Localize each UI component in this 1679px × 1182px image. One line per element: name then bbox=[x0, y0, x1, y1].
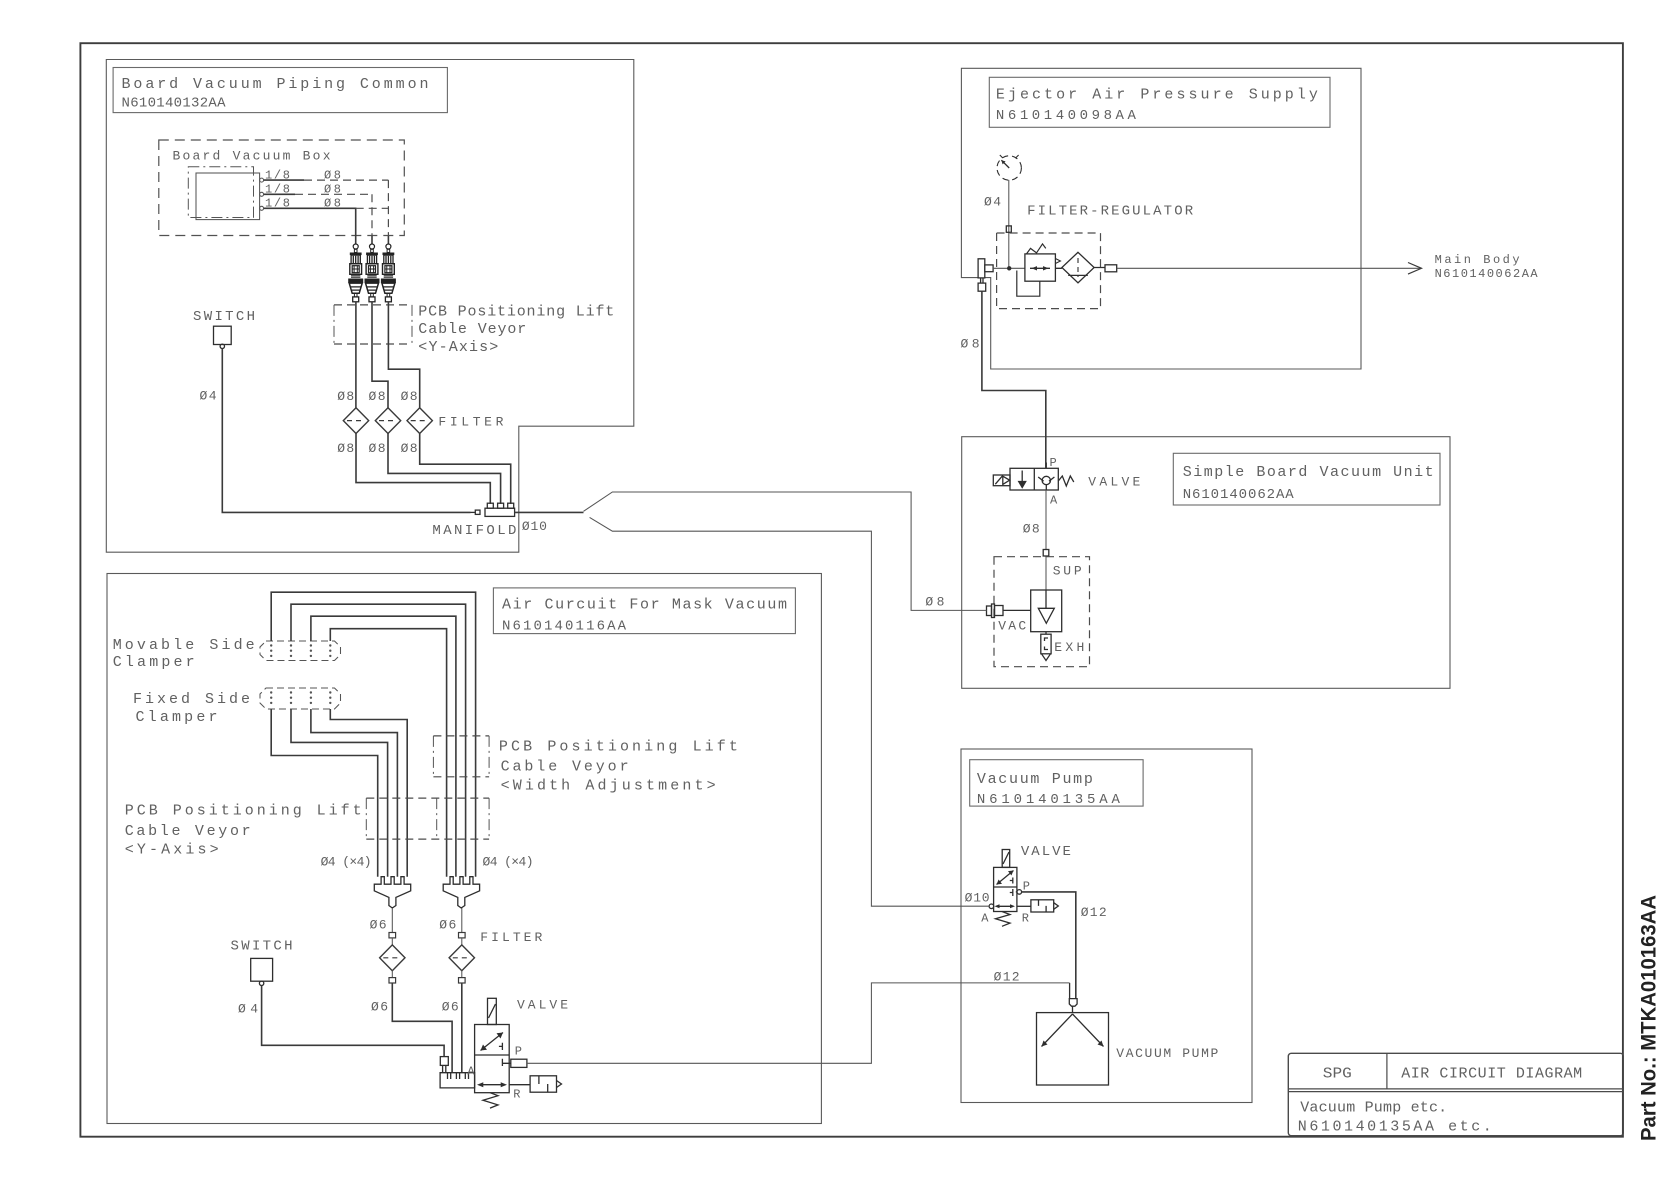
wire fitting1 to filter1 bbox=[355, 302, 357, 408]
movable clamper wire 4 bbox=[330, 629, 446, 877]
G_BOX5 : Vacuum Pump bbox=[961, 749, 1252, 1103]
movable clamper wire 2 bbox=[291, 604, 466, 877]
ejector dashed enclosure bbox=[994, 557, 1090, 667]
svg-text:Cable Veyor: Cable Veyor bbox=[418, 321, 526, 338]
port circle 1 bbox=[260, 178, 264, 182]
svg-text:SPG: SPG bbox=[1323, 1066, 1352, 1083]
comb manifold left bbox=[374, 877, 410, 908]
mask filter right fitting top bbox=[459, 933, 466, 938]
svg-text:FILTER-REGULATOR: FILTER-REGULATOR bbox=[1027, 204, 1194, 220]
svg-text:Clamper: Clamper bbox=[113, 654, 195, 671]
fixed clamper wire 4 bbox=[330, 709, 407, 877]
fixed clamper wire 2 bbox=[291, 709, 388, 877]
switch sec1 bbox=[214, 326, 232, 348]
section box Simple Board Vacuum Unit bbox=[962, 437, 1450, 689]
fitting on SUP line bbox=[1043, 550, 1049, 557]
svg-text:N610140062AA: N610140062AA bbox=[1435, 267, 1539, 281]
fixed clamper wire 1 bbox=[271, 709, 378, 877]
svg-text:VALVE: VALVE bbox=[1021, 844, 1071, 860]
fitting on gauge stem bbox=[1006, 226, 1011, 232]
section box Board Vacuum Piping Common bbox=[106, 60, 634, 553]
svg-text:EXH: EXH bbox=[1054, 640, 1084, 655]
Movable Side Clamper label bbox=[113, 637, 255, 671]
svg-text:Ø8: Ø8 bbox=[369, 441, 386, 456]
gauge stem wire bbox=[1008, 180, 1010, 268]
svg-text:Ø4 (×4): Ø4 (×4) bbox=[483, 855, 534, 870]
comb manifold right bbox=[443, 877, 479, 908]
pressure gauge bbox=[997, 155, 1021, 180]
filter diamond 1 bbox=[343, 408, 368, 434]
movable side clamper bbox=[260, 641, 341, 661]
filter diamond 3 bbox=[407, 408, 432, 434]
wire filter2 to manifold port2 bbox=[388, 434, 501, 504]
wire tube3 solid part bbox=[264, 208, 356, 244]
ejector valve spring bbox=[1058, 476, 1074, 486]
pump valve body bbox=[994, 867, 1017, 911]
bus merge funnel lower bbox=[590, 517, 990, 906]
vacuum chamber inner rect (center-line style) bbox=[188, 167, 253, 218]
section label box bbox=[1173, 453, 1440, 505]
fixed side clamper bbox=[260, 688, 341, 709]
Y axis cable veyor text sec2 bbox=[125, 803, 362, 859]
ejector body bbox=[1031, 590, 1062, 632]
svg-text:Air Curcuit For Mask Vacuum: Air Curcuit For Mask Vacuum bbox=[502, 597, 787, 614]
mask filter left bbox=[380, 938, 405, 978]
PCB cable veyor text sec1 bbox=[418, 304, 614, 357]
section label box bbox=[989, 77, 1330, 127]
wire filter right to valve manifold bbox=[461, 983, 463, 1073]
svg-text:Ø8: Ø8 bbox=[337, 441, 354, 456]
svg-text:Ø8: Ø8 bbox=[369, 389, 386, 404]
svg-text:VAC: VAC bbox=[998, 619, 1026, 634]
svg-text:VACUUM PUMP: VACUUM PUMP bbox=[1116, 1046, 1218, 1061]
svg-text:AIR CIRCUIT DIAGRAM: AIR CIRCUIT DIAGRAM bbox=[1401, 1066, 1582, 1083]
switch wire O4 sec2 bbox=[262, 986, 445, 1057]
switch sec2 bbox=[251, 958, 273, 985]
svg-text:A: A bbox=[1050, 494, 1058, 508]
valve manifold sec2 bbox=[440, 1073, 475, 1088]
wire comb right to filter bbox=[461, 908, 463, 933]
PCB positioning lift cable veyor Y-axis box (sec1) bbox=[334, 305, 412, 344]
wire fitting3 jog to filter3 bbox=[388, 302, 419, 408]
svg-text:Main Body: Main Body bbox=[1435, 253, 1520, 267]
svg-text:Simple Board Vacuum Unit: Simple Board Vacuum Unit bbox=[1183, 464, 1434, 481]
wire O10 manifold to bus bbox=[515, 511, 584, 513]
wire filter left to valve manifold bbox=[392, 983, 452, 1073]
svg-text:A: A bbox=[467, 1065, 475, 1079]
svg-text:Ø8: Ø8 bbox=[1023, 522, 1040, 537]
mask valve P return line bbox=[527, 983, 1070, 1063]
section box Ejector Air Pressure Supply bbox=[961, 68, 1361, 369]
svg-text:Vacuum Pump: Vacuum Pump bbox=[977, 771, 1093, 788]
mask filter left fitting top bbox=[389, 933, 396, 938]
svg-text:Cable Veyor: Cable Veyor bbox=[501, 759, 629, 776]
vacuum chamber outer rect bbox=[196, 173, 260, 220]
movable clamper wire 1 bbox=[271, 592, 475, 877]
mask filter right bbox=[449, 938, 474, 978]
filter diamond 2 bbox=[375, 408, 400, 434]
arrow line to main body bbox=[1117, 263, 1422, 275]
section label box bbox=[113, 68, 447, 113]
port circle 2 bbox=[260, 192, 264, 196]
wire filter3 to manifold port3 bbox=[420, 434, 511, 504]
section label box bbox=[970, 760, 1143, 806]
svg-text:Ø8: Ø8 bbox=[401, 441, 418, 456]
svg-text:Ø4 (×4): Ø4 (×4) bbox=[321, 855, 372, 870]
vacuum pump box bbox=[1037, 1013, 1109, 1085]
wire tube1 solid part bbox=[264, 179, 304, 181]
output fitting bbox=[1105, 265, 1117, 272]
wire fitting2 jog to filter2 bbox=[372, 302, 388, 408]
EXH muffler bbox=[1041, 632, 1051, 661]
svg-text:Vacuum Pump etc.: Vacuum Pump etc. bbox=[1300, 1100, 1447, 1117]
switch wire O4 sec1 bbox=[222, 349, 470, 513]
inlet fitting on valve manifold bbox=[440, 1057, 448, 1073]
Y axis cable veyor box sec2 bbox=[366, 798, 489, 839]
wire tube2 solid part bbox=[264, 193, 295, 195]
svg-text:Part No.: MTKA010163AA: Part No.: MTKA010163AA bbox=[1638, 895, 1661, 1141]
svg-text:Ø4: Ø4 bbox=[984, 195, 1001, 210]
regulator output filter diamond bbox=[1055, 252, 1105, 282]
regulator body bbox=[1017, 244, 1061, 296]
svg-text:PCB Positioning Lift: PCB Positioning Lift bbox=[418, 304, 614, 321]
svg-text:R: R bbox=[513, 1088, 520, 1102]
A port circle sec5 valve bbox=[989, 904, 994, 909]
pump valve pilot bbox=[1002, 850, 1010, 868]
svg-text:P: P bbox=[1050, 456, 1057, 470]
svg-text:N610140062AA: N610140062AA bbox=[1183, 487, 1295, 503]
suction fitting 2 bbox=[365, 244, 380, 302]
svg-text:N610140116AA: N610140116AA bbox=[502, 619, 627, 635]
G_BOX4 : Ejector Air Pressure Supply bbox=[961, 68, 1539, 468]
port circle 3 bbox=[260, 206, 264, 210]
svg-text:A: A bbox=[981, 912, 989, 926]
wire tube1 dashed part bbox=[304, 180, 388, 236]
wire tube2 dashed part bbox=[295, 194, 372, 236]
svg-text:Ø10: Ø10 bbox=[965, 891, 990, 906]
wire filter1 to manifold port1 bbox=[356, 434, 490, 504]
Main Body text bbox=[1435, 253, 1539, 281]
mask valve pilot bbox=[488, 998, 497, 1024]
svg-text:Ø12: Ø12 bbox=[994, 970, 1020, 985]
section label box bbox=[493, 588, 795, 634]
G_TITLEBLOCK bbox=[1288, 1053, 1623, 1135]
wire comb left to filter bbox=[391, 908, 393, 933]
svg-text:<Y-Axis>: <Y-Axis> bbox=[418, 339, 498, 356]
svg-text:VALVE: VALVE bbox=[517, 998, 568, 1013]
svg-text:Cable Veyor: Cable Veyor bbox=[125, 823, 251, 840]
svg-text:Ejector Air Pressure Supply: Ejector Air Pressure Supply bbox=[996, 87, 1318, 104]
svg-text:SUP: SUP bbox=[1053, 564, 1082, 579]
pump valve spring bbox=[996, 912, 1011, 927]
junction dot gauge line bbox=[1007, 266, 1011, 270]
R muffler sec2 bbox=[509, 1076, 561, 1092]
ejector valve body bbox=[1010, 463, 1058, 491]
svg-text:N610140135AA etc.: N610140135AA etc. bbox=[1298, 1119, 1492, 1136]
svg-text:Ø6: Ø6 bbox=[442, 1000, 459, 1015]
filter-regulator dashed box bbox=[997, 233, 1101, 309]
fixed clamper wire 3 bbox=[311, 709, 398, 877]
mask filter right fitting bottom bbox=[459, 978, 466, 983]
ejector valve solenoid bbox=[993, 475, 1010, 486]
svg-text:R: R bbox=[1022, 912, 1029, 926]
mask valve spring bbox=[483, 1093, 498, 1108]
svg-text:Ø6: Ø6 bbox=[371, 1000, 388, 1015]
Board Vacuum Box dashed enclosure bbox=[159, 140, 404, 236]
bus merge funnel upper bbox=[584, 492, 987, 610]
main supply line to regulator bbox=[993, 267, 1025, 269]
wire tube2 drop bbox=[371, 236, 373, 244]
svg-text:Ø6: Ø6 bbox=[439, 918, 456, 933]
svg-text:N610140132AA: N610140132AA bbox=[122, 96, 227, 112]
manifold sec1 bbox=[471, 503, 515, 516]
R muffler sec5 bbox=[1017, 900, 1058, 912]
svg-text:P: P bbox=[515, 1045, 522, 1059]
Fixed Side Clamper label bbox=[133, 691, 250, 726]
G_BOX2 : Air Curcuit For Mask Vacuum bbox=[107, 574, 821, 1124]
svg-text:Clamper: Clamper bbox=[136, 709, 218, 726]
title block outline bbox=[1288, 1053, 1623, 1135]
svg-text:Ø10: Ø10 bbox=[522, 519, 547, 534]
G_BUS : interconnecting lines bbox=[527, 492, 1070, 1063]
supply inlet tee fitting bbox=[978, 259, 993, 291]
mask filter left fitting bottom bbox=[389, 978, 396, 983]
pump inlet fitting bbox=[1069, 983, 1077, 1013]
svg-text:Ø8: Ø8 bbox=[337, 389, 354, 404]
P port circle sec5 valve bbox=[1017, 890, 1022, 895]
suction fitting 3 bbox=[381, 244, 396, 302]
movable clamper wire 3 bbox=[311, 616, 456, 877]
width adjustment text bbox=[499, 739, 738, 795]
wire valve A to ejector SUP bbox=[1045, 490, 1047, 590]
svg-text:Ø12: Ø12 bbox=[1081, 905, 1107, 920]
G_BOX1 : Board Vacuum Piping Common bbox=[106, 60, 634, 553]
suction fitting 1 bbox=[348, 244, 363, 302]
svg-text:Ø4: Ø4 bbox=[200, 389, 217, 404]
section box Vacuum Pump bbox=[961, 749, 1252, 1103]
wire P to pump O12 bbox=[1022, 892, 1076, 999]
section box Air Curcuit For Mask Vacuum bbox=[107, 574, 821, 1124]
P port fitting sec2 valve bbox=[511, 1059, 527, 1067]
VAC inlet fittings bbox=[987, 604, 1031, 618]
width adjustment cable veyor box bbox=[433, 736, 489, 777]
G_BOX3 : Simple Board Vacuum Unit bbox=[962, 437, 1450, 689]
svg-text:Ø8: Ø8 bbox=[401, 389, 418, 404]
wire tube1 drop to fitting bbox=[387, 236, 389, 244]
mask valve body bbox=[475, 1025, 511, 1093]
svg-text:Ø6: Ø6 bbox=[370, 918, 387, 933]
wire O8 supply to ejector valve P bbox=[982, 291, 1046, 468]
